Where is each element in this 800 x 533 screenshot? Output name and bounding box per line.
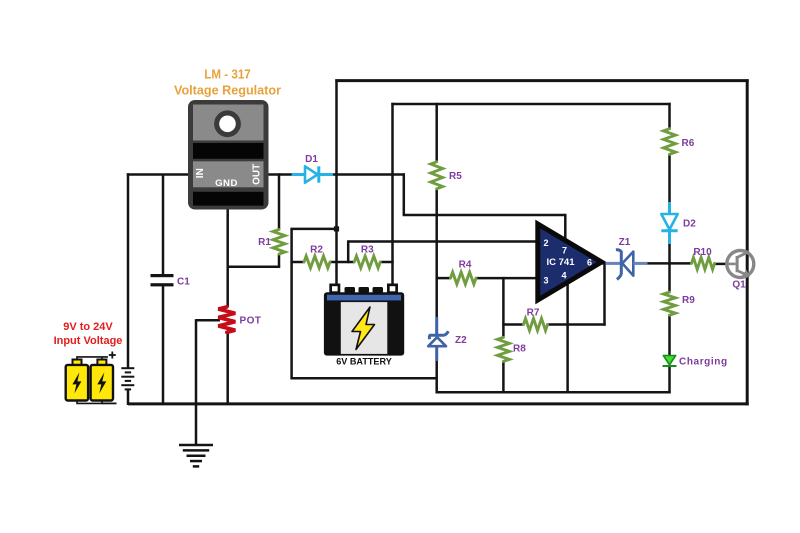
svg-text:D1: D1 (305, 154, 318, 165)
resistor R9 (664, 292, 676, 315)
svg-text:LM - 317: LM - 317 (204, 67, 251, 82)
resistor R1 (273, 230, 285, 254)
wire: POT bottom to bottom rail (226, 332, 229, 405)
wire: right rail through Q1 (746, 79, 749, 405)
svg-text:R6: R6 (682, 138, 695, 149)
svg-text:POT: POT (240, 316, 262, 327)
wire: pin 7 drop into op-amp (564, 214, 567, 241)
wire: top rail (335, 79, 748, 82)
svg-text:OUT: OUT (252, 164, 263, 185)
wire: R5 top lead (435, 103, 438, 163)
wire: left rail below battery symbol (127, 390, 130, 406)
wire: loop top horizontal (290, 228, 337, 231)
svg-text:R5: R5 (449, 171, 462, 182)
resistor R6 (664, 129, 676, 154)
input battery pack illustration (66, 352, 117, 404)
resistor R5 (431, 162, 443, 189)
svg-text:Q1: Q1 (732, 280, 746, 291)
wire: battery positive vertical (391, 103, 394, 286)
wire: input IN net horizontal (127, 173, 188, 176)
svg-text:R3: R3 (361, 245, 374, 256)
svg-text:C1: C1 (177, 277, 190, 288)
svg-text:9V to 24V: 9V to 24V (63, 321, 113, 333)
resistor R4 (451, 272, 476, 284)
wire: R5 bottom lead to R4 node (435, 188, 438, 318)
wire: R6 top lead (668, 103, 671, 130)
svg-text:Voltage Regulator: Voltage Regulator (174, 83, 281, 98)
wire: battery negative vertical (335, 79, 338, 285)
wire: op-amp output to Z1 (601, 262, 607, 265)
svg-text:D2: D2 (683, 219, 696, 230)
svg-text:GND: GND (215, 178, 238, 189)
wire: left rail vertical (input) (127, 173, 130, 368)
wire: R1 top lead (278, 173, 281, 229)
wire: pin2 branch vertical (347, 240, 350, 263)
wire: D2 to output junction (668, 243, 671, 265)
wire: R7 right lead (547, 323, 606, 326)
svg-text:6: 6 (587, 258, 592, 268)
wire: R6 bottom lead to D2 (668, 154, 671, 203)
svg-text:R10: R10 (693, 247, 712, 258)
wire: R1 bottom lead (278, 254, 281, 267)
svg-text:R9: R9 (682, 295, 695, 306)
wire: mid loop vertical (290, 229, 293, 380)
wire: pin2 horizontal into op-amp (348, 240, 537, 243)
svg-text:7: 7 (562, 245, 567, 255)
battery symbol (input supply) (121, 368, 134, 389)
resistor R10 (692, 257, 715, 269)
svg-text:R2: R2 (310, 245, 323, 256)
wire: Z1 to junction (647, 262, 693, 265)
junction dot (334, 226, 339, 231)
svg-text:2: 2 (543, 238, 548, 248)
zener diode Z1 (606, 250, 648, 280)
svg-text:R7: R7 (527, 307, 540, 318)
svg-text:Charging: Charging (679, 357, 728, 368)
wire: POT wiper horizontal (196, 319, 220, 322)
svg-text:Z1: Z1 (619, 237, 631, 248)
svg-text:6V BATTERY: 6V BATTERY (336, 357, 392, 367)
ground symbol (179, 445, 213, 466)
diode D2 (661, 202, 677, 244)
wire: LM317 OUT to D1 (269, 173, 294, 176)
wire: D1 to corner (333, 173, 406, 176)
wire: R9 to LED (668, 315, 671, 356)
wire: junction to R9 (668, 262, 671, 292)
wire: inner ground net horizontal (436, 391, 671, 394)
wire: R4 right lead into pin3 (476, 277, 538, 280)
resistor R2 (304, 256, 330, 268)
wire: C1 top lead (162, 175, 165, 276)
wire: pin4 vertical to gnd net (566, 282, 569, 393)
resistor R3 (354, 256, 380, 268)
wire: R10 to Q1 base (714, 263, 728, 266)
svg-text:4: 4 (561, 271, 566, 281)
wire: bottom rail (128, 402, 749, 405)
wire: Q1 base inside circle (728, 263, 736, 266)
battery B1 6V (324, 284, 404, 356)
wire: R1 bottom horizontal to GND net (227, 265, 281, 268)
wire: OUT net to pin7 horizontal (403, 214, 566, 217)
diode D1 (292, 166, 333, 182)
capacitor C1 (151, 274, 174, 286)
wire: under-battery horizontal (292, 377, 437, 380)
svg-text:IN: IN (195, 168, 206, 178)
potentiometer POT (218, 307, 235, 332)
wire: C1 bottom lead (162, 286, 165, 404)
svg-text:IC 741: IC 741 (547, 257, 576, 268)
voltage regulator U1 LM-317 package (188, 100, 269, 210)
wire: R8 bottom lead (502, 361, 505, 393)
wire: Z2 bottom black lead (435, 361, 438, 394)
resistor R7 (524, 319, 548, 331)
wire: R7 left lead (502, 323, 524, 326)
svg-text:R1: R1 (258, 237, 271, 248)
wire: LED to ground net (668, 366, 671, 393)
LED charging indicator (663, 356, 677, 367)
zener diode Z2 (428, 317, 448, 361)
svg-text:Z2: Z2 (455, 335, 467, 346)
svg-text:Input Voltage: Input Voltage (54, 335, 123, 347)
wire: R2 R3 divider horizontal (290, 261, 304, 264)
wire: LM317 GND pin down to POT (226, 209, 229, 307)
wire: wiper/ground vertical (195, 319, 198, 445)
wire: jog down from OUT net (403, 173, 406, 215)
svg-text:R4: R4 (459, 260, 472, 271)
wire: top mid horizontal rail (391, 103, 670, 106)
resistor R8 (497, 337, 509, 361)
svg-text:R8: R8 (513, 344, 526, 355)
wire: R8 top lead (502, 277, 505, 338)
transistor Q1 (727, 251, 754, 278)
wire: feedback vertical from output (603, 262, 606, 326)
wire: R4 left lead (436, 277, 452, 280)
svg-text:3: 3 (543, 275, 548, 285)
op-amp U2 IC 741 (538, 224, 602, 300)
